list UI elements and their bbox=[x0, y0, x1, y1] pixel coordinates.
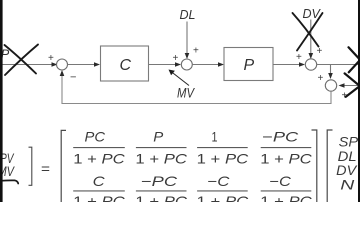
svg-text:P: P bbox=[153, 128, 164, 144]
svg-text:1 + PC: 1 + PC bbox=[197, 150, 250, 166]
svg-text:DL: DL bbox=[338, 149, 357, 164]
svg-text:+: + bbox=[173, 53, 179, 64]
wire DV down into S3 bbox=[309, 20, 314, 60]
svg-text:1 + PC: 1 + PC bbox=[73, 150, 126, 166]
block P (process) bbox=[224, 48, 273, 81]
svg-text:+: + bbox=[296, 52, 302, 63]
svg-text:1 + PC: 1 + PC bbox=[135, 193, 188, 202]
svg-text:DL: DL bbox=[180, 8, 196, 22]
frame left border bbox=[0, 0, 3, 202]
svg-text:+: + bbox=[342, 91, 348, 102]
matrix entry row2 col2: −PC / 1+PC bbox=[135, 173, 188, 209]
matrix entry row1 col4: −PC / 1+PC bbox=[260, 128, 313, 166]
svg-text:−: − bbox=[70, 72, 76, 84]
hand-drawn underline under MV bbox=[0, 180, 18, 183]
svg-text:+: + bbox=[193, 46, 199, 57]
wire S2 to block P bbox=[192, 62, 224, 67]
svg-text:1 + PC: 1 + PC bbox=[260, 150, 313, 166]
svg-text:+: + bbox=[317, 46, 323, 57]
svg-text:+: + bbox=[318, 73, 324, 84]
svg-text:1 + PC: 1 + PC bbox=[73, 193, 126, 202]
svg-text:+: + bbox=[48, 53, 54, 64]
svg-text:PC: PC bbox=[85, 128, 106, 144]
cross-out X over output wire bbox=[349, 47, 360, 72]
matrix entry row1 col2: P / 1+PC bbox=[135, 128, 188, 166]
svg-text:P: P bbox=[244, 57, 255, 74]
svg-text:−C: −C bbox=[269, 173, 292, 189]
svg-text:1: 1 bbox=[212, 128, 218, 144]
MV annotation arrow pointing at wire C→S2 bbox=[169, 70, 190, 86]
summing junction S1 bbox=[57, 59, 68, 70]
wire S1 to block C bbox=[68, 62, 101, 67]
matrix entry row2 col3: −C / 1+PC bbox=[197, 173, 250, 209]
svg-text:−C: −C bbox=[207, 173, 230, 189]
svg-text:C: C bbox=[120, 57, 132, 74]
block C (controller) bbox=[101, 46, 149, 81]
cross-out X over noise wire bbox=[345, 73, 360, 96]
summing junction S3 bbox=[305, 59, 316, 70]
right bracket of vector [PV MV] bbox=[29, 147, 32, 185]
matrix entry row1 col1: PC / 1+PC bbox=[73, 128, 126, 166]
wire SP input to summing junction S1 bbox=[0, 62, 58, 67]
svg-text:−PC: −PC bbox=[262, 128, 299, 144]
wire branch from S3 output down into S4 bbox=[328, 65, 333, 80]
svg-text:SP: SP bbox=[339, 135, 359, 150]
svg-text:N: N bbox=[340, 177, 354, 192]
wire noise N from right edge into S4 bbox=[339, 83, 360, 88]
summing junction S4 (measurement noise) bbox=[325, 80, 336, 91]
svg-text:C: C bbox=[93, 173, 106, 189]
wire P to summing junction S3 bbox=[273, 62, 305, 67]
cross-out X over DV bbox=[293, 13, 323, 51]
matrix right bracket bbox=[312, 130, 317, 202]
wire C to summing junction S2 bbox=[149, 62, 182, 67]
svg-text:1 + PC: 1 + PC bbox=[260, 193, 313, 202]
svg-text:−PC: −PC bbox=[141, 173, 178, 189]
svg-text:1 + PC: 1 + PC bbox=[197, 193, 250, 202]
wire DL down into S2 bbox=[185, 22, 190, 60]
feedback wire S4 down, left, and up into S1 bbox=[60, 70, 331, 104]
left bracket of vector [SP DL DV N] bbox=[327, 130, 332, 202]
matrix entry row1 col3: 1 / 1+PC bbox=[197, 128, 250, 166]
matrix entry row2 col4: −C / 1+PC bbox=[260, 173, 313, 209]
matrix left bracket bbox=[61, 130, 66, 202]
svg-text:1 + PC: 1 + PC bbox=[135, 150, 188, 166]
wire S3 to output PV (toward right edge) bbox=[317, 64, 360, 66]
svg-text:DV: DV bbox=[336, 163, 358, 178]
svg-text:=: = bbox=[41, 161, 50, 177]
svg-text:MV: MV bbox=[177, 85, 195, 101]
matrix entry row2 col1: C / 1+PC bbox=[73, 173, 126, 209]
frame right border bbox=[358, 0, 360, 202]
summing junction S2 bbox=[181, 59, 192, 70]
cross-out X over SP input bbox=[5, 45, 39, 76]
